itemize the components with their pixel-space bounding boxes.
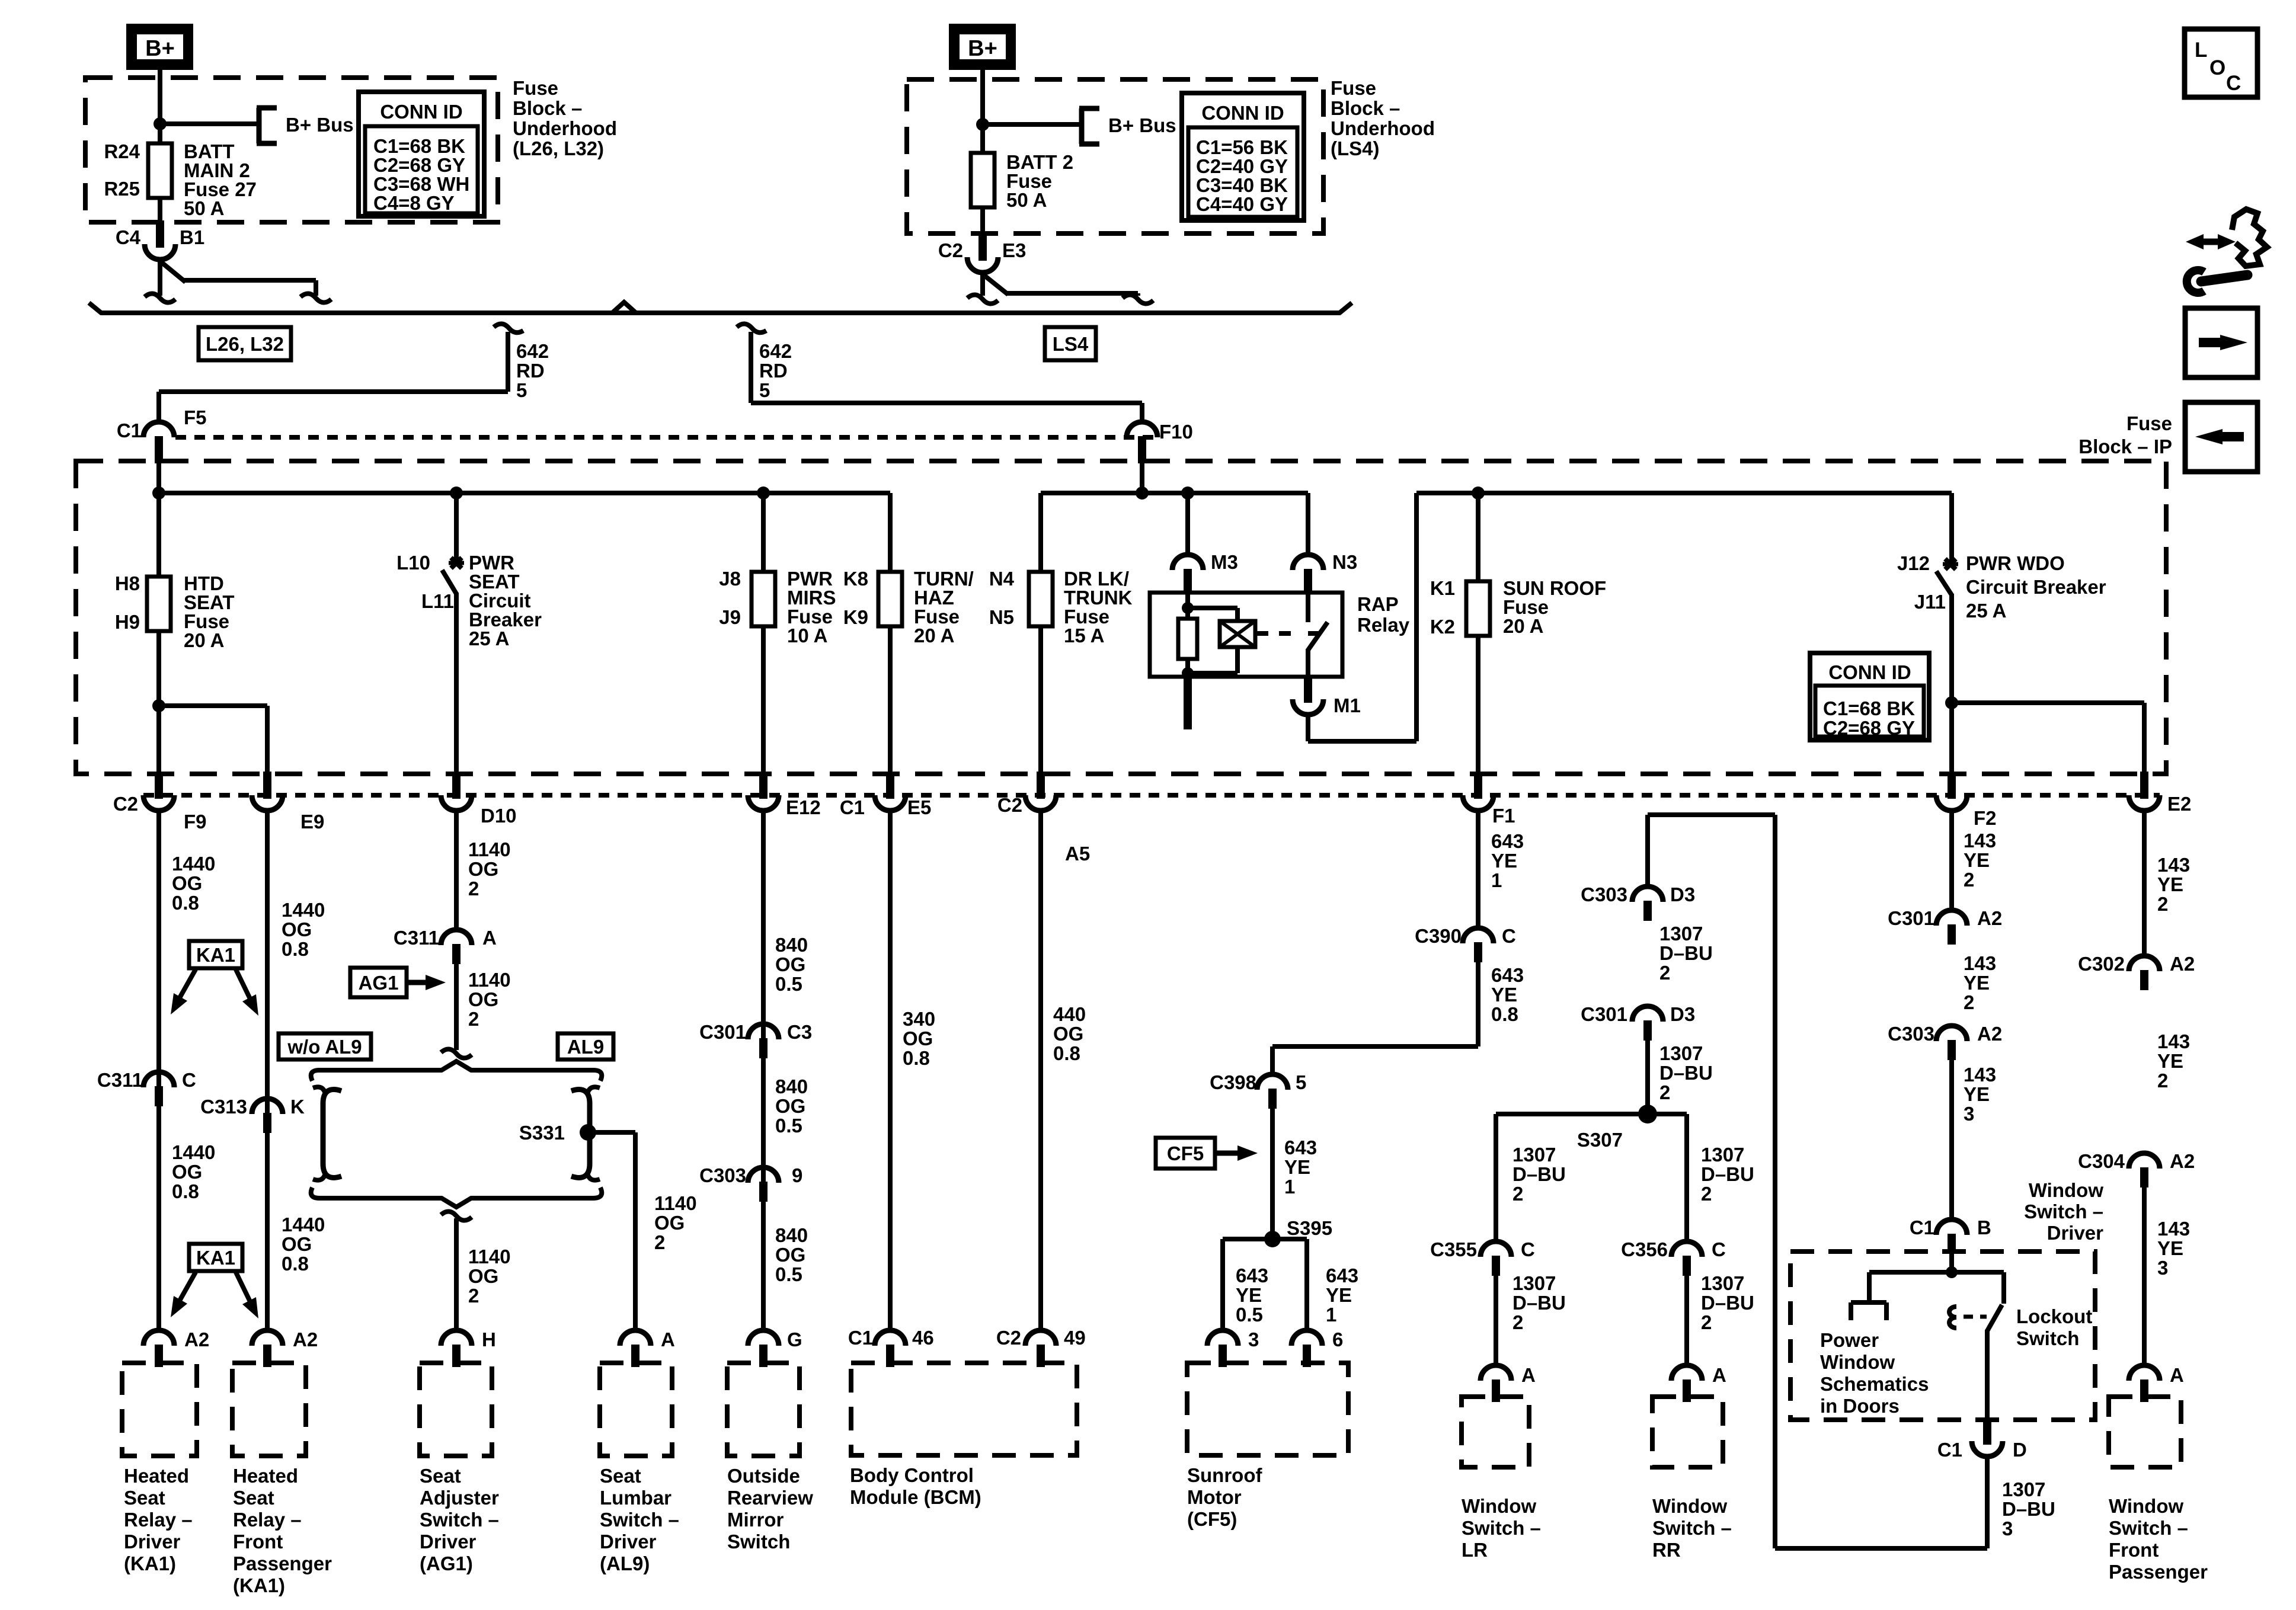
- svg-text:A2: A2: [1977, 907, 2002, 929]
- dashed box Fuse Block - IP: [76, 461, 2166, 774]
- pin label 3: [1248, 1329, 1259, 1350]
- svg-text:OG: OG: [775, 1095, 805, 1117]
- svg-text:Window: Window: [1820, 1351, 1895, 1373]
- svg-text:2: 2: [2157, 893, 2168, 915]
- wire PWR WDO breaker to F2: [1949, 594, 1954, 775]
- svg-text:YE: YE: [1964, 1083, 1990, 1105]
- svg-text:F1: F1: [1492, 805, 1515, 827]
- svg-text:M1: M1: [1334, 694, 1361, 716]
- pin label 49: [1064, 1327, 1086, 1349]
- svg-text:D–BU: D–BU: [1512, 1163, 1566, 1185]
- pin label A5: [1065, 843, 1090, 865]
- svg-text:0.5: 0.5: [775, 1115, 802, 1137]
- node junction F10: [1136, 486, 1149, 500]
- LOC reference box: [2185, 29, 2257, 97]
- wire label 143 YE 3 (driver): [1964, 1064, 1996, 1125]
- fuse HTD SEAT 20 A (H8/H9): [147, 577, 171, 631]
- svg-text:N3: N3: [1332, 551, 1357, 573]
- wire E3 down (right): [980, 273, 985, 296]
- svg-text:C304: C304: [2078, 1150, 2125, 1172]
- label Fuse Block - Underhood (LS4): [1331, 77, 1435, 159]
- svg-text:N4: N4: [989, 568, 1015, 590]
- pin label A (LR): [1521, 1364, 1536, 1386]
- svg-text:1: 1: [1491, 869, 1502, 891]
- wire 642 RD 5 (left drop): [159, 332, 508, 423]
- svg-text:J9: J9: [719, 606, 741, 628]
- svg-text:1307: 1307: [1659, 923, 1703, 945]
- svg-text:H: H: [482, 1329, 496, 1350]
- wire label 1307 D-BU 2 (LR lower): [1512, 1272, 1566, 1333]
- svg-text:R24: R24: [104, 140, 140, 162]
- wire DR LK/TRUNK fuse to A5: [1038, 626, 1043, 775]
- connector A2 (heated seat relay passenger): [252, 1330, 283, 1367]
- svg-text:R25: R25: [104, 178, 140, 200]
- component box Seat Lumbar Switch - Driver: [600, 1363, 672, 1456]
- node junction M1 line to SUN ROOF fuse: [1472, 486, 1485, 500]
- wire C1-D to S307 riser: [1648, 815, 1987, 1548]
- connector C2 / 49 (BCM): [1025, 1330, 1056, 1367]
- svg-text:C3: C3: [787, 1021, 812, 1043]
- pin label F10: [1159, 421, 1193, 443]
- fuse PWR MIRS 10 A (J8/J9): [752, 572, 775, 626]
- svg-text:KA1: KA1: [196, 1247, 235, 1269]
- svg-text:C301: C301: [1581, 1003, 1627, 1025]
- pin label J9: [719, 606, 741, 628]
- svg-text:C2: C2: [113, 793, 138, 815]
- svg-text:in Doors: in Doors: [1820, 1395, 1900, 1417]
- connector C356 / C: [1671, 1241, 1702, 1276]
- wire B1 diagonal branch: [159, 260, 316, 296]
- label Fuse Block - IP: [2078, 412, 2172, 457]
- svg-text:C355: C355: [1430, 1238, 1477, 1260]
- dashed box Fuse Block - Underhood (LS4): [907, 79, 1323, 233]
- wire 642 RD 5 (right drop): [751, 332, 1142, 423]
- svg-text:B+ Bus: B+ Bus: [1108, 114, 1176, 136]
- node junction bus to PWR SEAT breaker: [450, 486, 463, 500]
- wire A5 to BCM 49: [1038, 809, 1043, 1331]
- svg-text:C2: C2: [996, 1327, 1021, 1349]
- svg-text:2: 2: [1964, 869, 1974, 891]
- svg-text:1140: 1140: [468, 1246, 511, 1267]
- wire B+ to fuse (left): [158, 70, 162, 145]
- component box Window Switch - LR: [1462, 1397, 1529, 1467]
- svg-text:Switch: Switch: [2016, 1327, 2079, 1349]
- wire B+ to fuse (right): [980, 70, 985, 154]
- wire label 643 YE 1 (F1): [1491, 830, 1524, 891]
- svg-text:Switch –: Switch –: [420, 1509, 499, 1531]
- svg-text:49: 49: [1064, 1327, 1086, 1349]
- svg-text:1440: 1440: [172, 1141, 215, 1163]
- wire label 143 YE 2 (driver 2): [1964, 952, 1996, 1013]
- pin label C313 (K): [200, 1096, 247, 1118]
- svg-text:A2: A2: [184, 1329, 209, 1350]
- connector pin N3: [1293, 555, 1323, 594]
- pin label N3: [1332, 551, 1357, 573]
- option bracket right (AL9 splice): [571, 1087, 600, 1180]
- svg-text:2: 2: [1701, 1183, 1712, 1205]
- svg-text:A2: A2: [293, 1329, 318, 1350]
- pin label C2 (A5): [997, 794, 1022, 816]
- wire label 1440 OG 0.8 (col1 upper): [172, 853, 215, 914]
- pin label L11: [421, 590, 454, 612]
- svg-text:A: A: [661, 1329, 675, 1350]
- pin label R24: [104, 140, 140, 162]
- svg-text:C1: C1: [1937, 1439, 1962, 1461]
- AG1 arrow: [407, 975, 446, 990]
- svg-text:840: 840: [775, 1076, 808, 1097]
- wire label 1440 OG 0.8 (col2 lower): [282, 1214, 325, 1275]
- pin label R25: [104, 178, 140, 200]
- wire C301-D3 to S307: [1645, 1037, 1650, 1114]
- pin label A (RR): [1712, 1364, 1726, 1386]
- svg-text:AG1: AG1: [359, 972, 399, 994]
- connector 3 (sunroof motor): [1207, 1330, 1238, 1367]
- B+ Bus bracket symbol (left): [257, 108, 277, 143]
- svg-text:B+: B+: [968, 36, 997, 61]
- svg-text:B+ Bus: B+ Bus: [286, 114, 354, 136]
- wire bus to PWR SEAT breaker: [454, 493, 459, 563]
- svg-text:643: 643: [1284, 1137, 1317, 1158]
- net label L26, L32: [199, 327, 291, 360]
- svg-text:(AL9): (AL9): [600, 1553, 650, 1574]
- svg-text:RR: RR: [1652, 1539, 1681, 1561]
- svg-text:D–BU: D–BU: [1701, 1292, 1754, 1314]
- connector 6 (sunroof motor): [1291, 1330, 1322, 1367]
- wire S307 crossbar: [1496, 1112, 1687, 1116]
- svg-text:Window: Window: [1652, 1495, 1727, 1517]
- svg-text:642: 642: [759, 340, 792, 362]
- svg-text:(CF5): (CF5): [1187, 1508, 1237, 1530]
- wire label 643 YE 1 (CF5): [1284, 1137, 1317, 1198]
- svg-text:Driver: Driver: [600, 1531, 657, 1553]
- wire TURN/HAZ fuse to E5: [888, 626, 893, 775]
- svg-text:143: 143: [2157, 1030, 2190, 1052]
- pin label A2 (passenger relay): [293, 1329, 318, 1350]
- svg-text:5: 5: [759, 379, 770, 401]
- pin label A2 (C302): [2170, 953, 2195, 975]
- wire label 840 OG 0.5 (mirror lower): [775, 1224, 808, 1285]
- wire label 1440 OG 0.8 (col2 upper): [282, 899, 325, 960]
- wire M1 return: [1308, 493, 1416, 741]
- label Window Switch - RR: [1652, 1495, 1732, 1561]
- pin label E9: [300, 811, 324, 833]
- svg-text:OG: OG: [654, 1212, 685, 1234]
- pin label D3 (C301): [1670, 1003, 1695, 1025]
- svg-text:C1: C1: [1910, 1217, 1934, 1238]
- net tag w/o AL9: [279, 1033, 371, 1060]
- svg-text:D–BU: D–BU: [1701, 1163, 1754, 1185]
- svg-text:CONN ID: CONN ID: [380, 101, 462, 123]
- pin label C301 (A2): [1888, 907, 1934, 929]
- circuit breaker PWR SEAT 25 A (L10/L11): [442, 558, 464, 594]
- connector F1: [1463, 772, 1494, 811]
- node junction lockout feed: [1946, 1266, 1958, 1278]
- service icon (vehicle with arrows and wrench): [2186, 209, 2267, 293]
- pin label C356 (C): [1621, 1238, 1668, 1260]
- pin label H8: [115, 572, 140, 594]
- connector D10: [441, 772, 472, 811]
- svg-text:A: A: [2170, 1364, 2184, 1386]
- svg-text:0.8: 0.8: [172, 892, 199, 914]
- wire E2 to C302: [2142, 809, 2147, 957]
- pin label K1: [1430, 577, 1455, 599]
- svg-text:0.8: 0.8: [282, 938, 309, 960]
- wire N3 to switch contact: [1306, 594, 1310, 622]
- svg-text:OG: OG: [468, 858, 498, 880]
- pin label A (lumbar): [661, 1329, 675, 1350]
- wire branch to E9: [159, 706, 267, 775]
- pin label N5: [989, 606, 1014, 628]
- svg-text:1307: 1307: [1659, 1042, 1703, 1064]
- pin label C398 (5): [1210, 1071, 1256, 1093]
- connector F10: [1127, 422, 1157, 463]
- wire S331 to seat lumbar switch: [588, 1132, 635, 1331]
- svg-text:YE: YE: [2157, 873, 2183, 895]
- connector C1 / 46 (BCM): [875, 1330, 906, 1367]
- svg-text:E3: E3: [1002, 239, 1026, 261]
- wire label 1307 D-BU 3: [2002, 1478, 2055, 1539]
- svg-text:0.8: 0.8: [282, 1253, 309, 1275]
- svg-text:Switch –: Switch –: [1652, 1517, 1732, 1539]
- svg-text:K1: K1: [1430, 577, 1455, 599]
- svg-text:H8: H8: [115, 572, 140, 594]
- svg-text:Power: Power: [1820, 1329, 1879, 1351]
- KA1 arrows (upper): [171, 969, 258, 1016]
- svg-text:YE: YE: [1236, 1284, 1262, 1306]
- pin label C311 (C): [97, 1069, 143, 1091]
- connector C311 / A: [441, 930, 472, 964]
- connector pin M1: [1293, 676, 1323, 715]
- wire label 1140 OG 2 (seat lower): [468, 1246, 511, 1307]
- component box Heated Seat Relay - Front Passenger: [232, 1363, 306, 1456]
- svg-text:Block –: Block –: [513, 97, 582, 119]
- wire F1 to C390: [1476, 809, 1480, 929]
- wire label 1307 D-BU 2 (RR upper): [1701, 1144, 1754, 1205]
- svg-text:2: 2: [1964, 991, 1974, 1013]
- pin label A2 (driver relay): [184, 1329, 209, 1350]
- svg-text:L10: L10: [396, 552, 430, 574]
- wire bus corner to relay N3: [1306, 493, 1310, 556]
- label Sunroof Motor (CF5): [1187, 1464, 1262, 1530]
- relay coil winding symbol: [1220, 621, 1255, 647]
- svg-text:642: 642: [516, 340, 549, 362]
- svg-text:50 A: 50 A: [1006, 189, 1047, 211]
- svg-text:0.8: 0.8: [172, 1180, 199, 1202]
- svg-text:C301: C301: [699, 1021, 746, 1043]
- node junction bus left end: [152, 486, 165, 500]
- svg-text:1: 1: [1326, 1304, 1336, 1326]
- CONN ID table (L26,L32): [359, 92, 484, 216]
- svg-text:L11: L11: [421, 590, 454, 612]
- wire hook from bus (642 RD right): [737, 324, 766, 332]
- svg-text:Seat: Seat: [600, 1465, 641, 1487]
- connector A (window switch front passenger): [2129, 1365, 2160, 1402]
- pin label C1 (F5): [117, 420, 142, 441]
- wire break to harness (left-1): [145, 293, 175, 302]
- svg-text:2: 2: [1659, 962, 1670, 984]
- svg-text:Module (BCM): Module (BCM): [850, 1486, 981, 1508]
- svg-text:A: A: [482, 927, 497, 949]
- pin label C2 (E3): [938, 239, 963, 261]
- option bracket left (w/o AL9 jumper): [313, 1087, 341, 1180]
- wire coil feed: [1185, 594, 1190, 620]
- svg-text:2: 2: [468, 878, 479, 900]
- wire S395 split: [1223, 1239, 1307, 1331]
- connector A (window switch RR): [1671, 1365, 1702, 1402]
- relay actuator dashed link: [1256, 631, 1319, 636]
- svg-text:3: 3: [1248, 1329, 1259, 1350]
- svg-text:(L26, L32): (L26, L32): [513, 137, 604, 159]
- svg-text:3: 3: [2002, 1518, 2013, 1539]
- svg-text:440: 440: [1053, 1003, 1086, 1025]
- svg-text:5: 5: [1296, 1071, 1306, 1093]
- svg-text:0.8: 0.8: [903, 1047, 930, 1069]
- svg-text:143: 143: [1964, 952, 1996, 974]
- wire C390 to C398: [1272, 959, 1478, 1076]
- svg-text:2: 2: [2157, 1070, 2168, 1092]
- connector A (window switch LR): [1480, 1365, 1511, 1402]
- pin label E2: [2167, 793, 2191, 815]
- svg-text:C390: C390: [1415, 925, 1462, 947]
- power symbol B+ (right feed): [949, 24, 1016, 70]
- svg-text:C313: C313: [200, 1096, 247, 1118]
- svg-text:Relay –: Relay –: [124, 1509, 193, 1531]
- label Window Switch - Driver: [2024, 1179, 2103, 1244]
- svg-text:1140: 1140: [468, 838, 511, 860]
- svg-text:1307: 1307: [2002, 1478, 2045, 1500]
- label S331: [519, 1122, 565, 1144]
- node junction bus to relay coil: [1181, 486, 1194, 500]
- connector pin M3: [1172, 555, 1203, 594]
- pin label G: [787, 1329, 802, 1350]
- wire label 840 OG 0.5 (mirror upper): [775, 934, 808, 995]
- wire IP internal bus (left): [159, 491, 890, 495]
- svg-text:(KA1): (KA1): [124, 1553, 176, 1574]
- svg-text:A5: A5: [1065, 843, 1090, 865]
- wire break to harness (left-2): [300, 293, 331, 302]
- pin label J12: [1897, 552, 1930, 574]
- fuse TURN/HAZ 20 A (K8/K9): [878, 572, 902, 626]
- svg-text:K8: K8: [843, 568, 868, 590]
- wire F2 to C301-A2: [1949, 809, 1954, 911]
- component box Sunroof Motor: [1187, 1363, 1348, 1455]
- wire IP internal bus (F10 section): [1041, 491, 1308, 495]
- svg-text:O: O: [2209, 56, 2225, 79]
- connector E9: [252, 772, 283, 811]
- svg-text:643: 643: [1491, 964, 1524, 986]
- fuse BATT 2 Fuse 50 A: [971, 153, 994, 207]
- wire hook from bus (642 RD left): [494, 324, 523, 332]
- node junction B+ bus tap (left): [154, 117, 167, 130]
- svg-text:Rearview: Rearview: [727, 1487, 813, 1509]
- svg-text:Fuse: Fuse: [2126, 412, 2172, 434]
- pin label E12: [786, 796, 821, 818]
- wire break to harness (right-2): [1123, 295, 1153, 303]
- svg-text:143: 143: [1964, 1064, 1996, 1086]
- svg-text:KA1: KA1: [196, 944, 235, 966]
- wire bus to PWR MIRS fuse: [761, 493, 766, 573]
- svg-text:OG: OG: [172, 872, 202, 894]
- svg-text:C1=68 BK: C1=68 BK: [1823, 697, 1915, 719]
- wire blade to C1-D: [1985, 1330, 1990, 1421]
- pin label D10: [481, 805, 517, 827]
- svg-text:Window: Window: [2109, 1495, 2183, 1517]
- label S307: [1577, 1129, 1623, 1151]
- svg-text:Switch –: Switch –: [600, 1509, 679, 1531]
- pin label C1 (E5): [840, 796, 865, 818]
- wire label 440 OG 0.8: [1053, 1003, 1086, 1064]
- wire main battery bus: [101, 311, 1340, 315]
- component box Seat Adjuster Switch - Driver: [420, 1363, 492, 1456]
- svg-text:YE: YE: [1491, 850, 1517, 872]
- pin label C304 (A2): [2078, 1150, 2125, 1172]
- pin label 9: [792, 1164, 802, 1186]
- svg-text:K: K: [290, 1096, 305, 1118]
- value label SUN ROOF Fuse 20 A: [1503, 577, 1606, 637]
- value label TURN/HAZ Fuse 20 A: [914, 568, 974, 646]
- label Lockout Switch: [2016, 1305, 2092, 1349]
- wire S307 to C356: [1684, 1114, 1689, 1243]
- wire C311-A to brace: [454, 961, 459, 1050]
- connector C2 / E3: [967, 233, 998, 273]
- svg-text:Switch –: Switch –: [1462, 1517, 1541, 1539]
- svg-text:N5: N5: [989, 606, 1014, 628]
- wire label 1307 D-BU 2 (mid): [1659, 1042, 1713, 1103]
- svg-text:K9: K9: [843, 606, 868, 628]
- connector F2: [1936, 772, 1967, 811]
- pin label 46: [912, 1327, 934, 1349]
- pin label A (front passenger): [2170, 1364, 2184, 1386]
- pin label H9: [115, 611, 140, 633]
- wire bus corner to TURN HAZ fuse: [888, 493, 893, 573]
- pin label C303 (D3): [1581, 884, 1627, 905]
- KA1 arrows (lower): [171, 1272, 258, 1318]
- svg-text:2: 2: [468, 1285, 479, 1307]
- wire label 840 OG 0.5 (mirror mid): [775, 1076, 808, 1137]
- svg-text:LS4: LS4: [1053, 333, 1089, 355]
- svg-text:25 A: 25 A: [1966, 600, 2006, 622]
- svg-text:RD: RD: [516, 360, 545, 382]
- svg-text:20 A: 20 A: [184, 629, 224, 651]
- svg-text:20 A: 20 A: [1503, 615, 1543, 637]
- svg-text:C2: C2: [997, 794, 1022, 816]
- pin label C: [182, 1069, 196, 1091]
- pin label K8: [843, 568, 868, 590]
- svg-text:Block – IP: Block – IP: [2078, 436, 2172, 457]
- net tag AL9: [558, 1033, 613, 1060]
- connector C301 / A2: [1936, 910, 1967, 945]
- wire C398 to S395: [1270, 1105, 1275, 1239]
- svg-text:3: 3: [1964, 1103, 1974, 1125]
- svg-text:Seat: Seat: [420, 1465, 461, 1487]
- wire to SUN ROOF fuse: [1476, 493, 1480, 582]
- value label DR LK/TRUNK Fuse 15 A: [1064, 568, 1133, 646]
- wire label 143 YE 2 (pass 2): [2157, 1030, 2190, 1092]
- wire into lockout switch: [1949, 1251, 1954, 1272]
- wire lockout internal bus: [1869, 1270, 2004, 1275]
- svg-text:143: 143: [2157, 854, 2190, 876]
- connector C398 / 5: [1257, 1074, 1288, 1109]
- svg-text:YE: YE: [1284, 1156, 1310, 1178]
- svg-text:F10: F10: [1159, 421, 1193, 443]
- svg-text:Body Control: Body Control: [850, 1464, 974, 1486]
- wire D10 to C311-A: [454, 809, 459, 931]
- wire E3 diagonal branch: [981, 273, 1138, 296]
- pin label J11: [1914, 591, 1946, 613]
- svg-text:Fuse: Fuse: [513, 77, 558, 99]
- label B+ Bus (left): [286, 114, 354, 136]
- connector C311 / C: [143, 1072, 174, 1106]
